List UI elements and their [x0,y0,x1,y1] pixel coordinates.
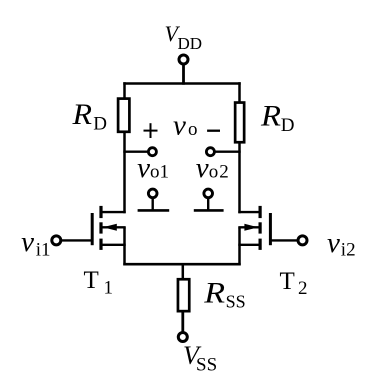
transistor T1 gate bar [91,213,94,245]
power V_DD terminal circle [179,55,188,64]
svg-text:R: R [71,98,92,131]
wire bottom bus [123,263,240,266]
transistor T1 channel bottom segment (source) [99,239,102,250]
svg-text:SS: SS [196,355,217,376]
wire tail stem to RSS [182,263,185,279]
svg-text:v: v [327,227,340,259]
label vo2 [196,152,230,184]
transistor T2 channel middle segment (bulk) [259,222,262,233]
label vo (differential output) [173,110,198,142]
svg-text:D: D [281,115,295,136]
transistor T1 channel middle segment (bulk) [99,222,102,233]
svg-text:SS: SS [226,292,246,312]
wire top bus [123,82,240,85]
wire right drop to RD2 [238,82,241,102]
resistor RSS (R_SS) [178,279,189,311]
wire T1 gate lead [62,239,93,241]
resistor RD1 (left R_D) [118,99,129,132]
label RD1 R_D [71,98,106,134]
wire RSS down to V_SS terminal [181,313,184,332]
transistor T1 channel top segment (drain) [99,206,102,218]
wire T1 source/bulk down to bus [123,227,126,265]
wire left drop to RD1 [123,82,126,99]
wire T1 bulk lead [103,226,126,228]
label RD2 R_D [260,99,295,136]
terminal vi1 circle [52,236,61,245]
transistor T2 gate bar [269,213,272,245]
wire T2 source lead [238,244,260,246]
wire vo2 stub [215,150,241,152]
label RSS R_SS [203,277,245,312]
svg-text:DD: DD [178,34,203,53]
transistor T2 channel top segment (drain) [259,206,262,218]
svg-text:o1: o1 [150,162,169,183]
terminal vo2 circle [206,148,214,156]
wire T2 gate lead [270,239,297,241]
svg-text:R: R [203,277,225,310]
label vo1 [137,152,169,184]
power V_SS label [183,341,217,376]
ground reference terminal left (circle, stem, bar) [138,189,170,210]
label vi1 [21,226,50,261]
terminal vo1 circle [148,148,156,156]
wire T2 source/bulk down to bus [238,227,241,265]
wire vo1 stub [123,150,148,152]
label − polarity [207,130,220,132]
wire T2 drain lead [238,211,260,213]
wire V_DD stem [182,65,185,85]
svg-text:v: v [137,152,150,184]
power V_DD label [165,21,203,53]
terminal vi2 circle [298,236,307,245]
wire T1 drain lead [101,211,126,213]
svg-text:o2: o2 [209,162,230,183]
transistor T2 channel bottom segment (source) [259,239,262,250]
transistor T2 bulk arrow (points right) [244,224,258,231]
power V_SS terminal circle [178,333,187,342]
svg-text:R: R [260,99,281,132]
transistor T1 bulk arrow (points left) [103,224,117,231]
wire T1 source lead [101,244,126,246]
svg-text:v: v [196,152,209,184]
svg-text:1: 1 [104,278,114,299]
label T2 [280,268,308,299]
svg-text:o: o [188,119,198,140]
svg-text:T: T [84,267,99,294]
svg-text:T: T [280,268,295,295]
svg-text:D: D [93,114,107,135]
wire left drain riser [123,133,126,214]
wire right drain riser [238,143,241,213]
label T1 [84,267,114,299]
resistor RD2 (right R_D) [235,103,244,143]
label vi2 [327,227,356,261]
label + polarity [144,123,158,138]
svg-text:v: v [173,110,186,142]
svg-text:i2: i2 [341,240,356,261]
ground reference terminal right (circle, stem, bar) [194,189,224,210]
svg-text:i1: i1 [36,240,51,261]
wire T2 bulk lead [238,226,258,228]
svg-text:2: 2 [298,278,308,299]
svg-text:v: v [21,226,34,258]
